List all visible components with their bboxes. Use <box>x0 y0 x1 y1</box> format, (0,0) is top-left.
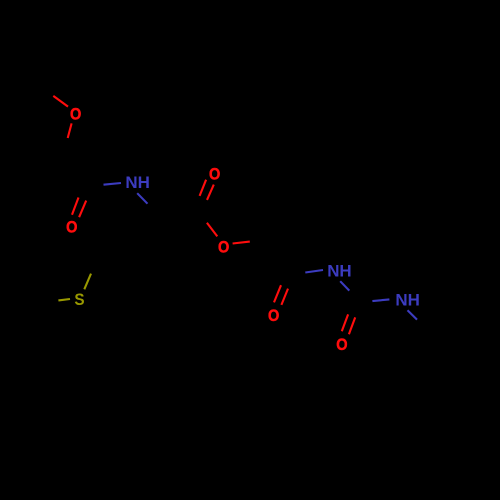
svg-text:NH: NH <box>327 261 352 280</box>
svg-text:O: O <box>209 165 220 184</box>
svg-text:NH: NH <box>395 291 420 310</box>
svg-text:O: O <box>336 335 347 354</box>
svg-text:S: S <box>74 290 84 309</box>
svg-text:O: O <box>66 218 77 237</box>
svg-text:O: O <box>268 306 279 325</box>
svg-text:O: O <box>218 237 229 256</box>
svg-text:O: O <box>70 105 81 124</box>
svg-text:NH: NH <box>125 173 149 192</box>
